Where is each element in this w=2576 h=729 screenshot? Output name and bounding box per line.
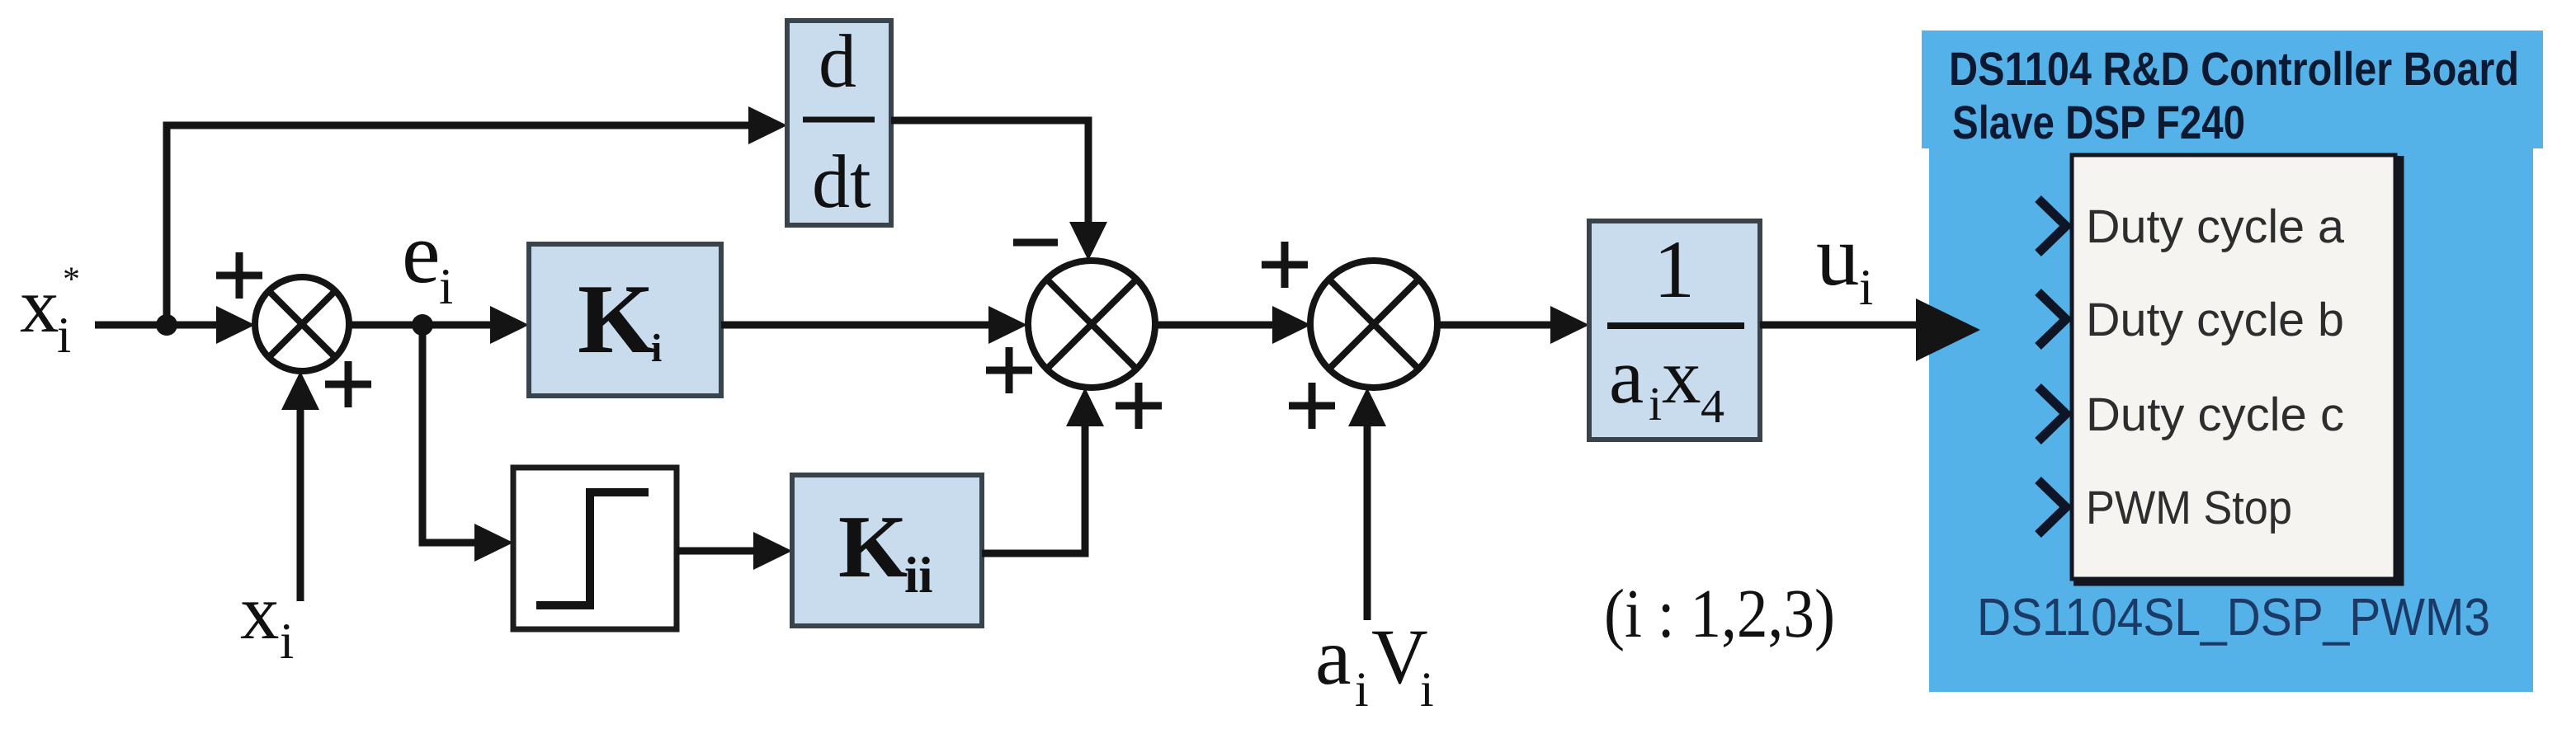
label e_i bbox=[402, 205, 453, 315]
DS1104 controller board block bbox=[1922, 31, 2543, 692]
wire x_i input from bottom into S1 bbox=[281, 371, 319, 601]
svg-text:a: a bbox=[1609, 332, 1644, 420]
svg-text:Slave DSP F240: Slave DSP F240 bbox=[1952, 96, 2245, 149]
svg-text:Duty cycle a: Duty cycle a bbox=[2086, 200, 2344, 253]
wire e_i branch down to relay block bbox=[422, 325, 513, 562]
svg-text:PWM Stop: PWM Stop bbox=[2086, 482, 2292, 534]
block Kii bbox=[792, 475, 982, 626]
wire feedback from node up to d/dt block bbox=[167, 125, 748, 325]
svg-text:i: i bbox=[1355, 662, 1369, 717]
svg-text:4: 4 bbox=[1701, 379, 1724, 433]
wire S3 output to gain block bbox=[1437, 306, 1589, 344]
svg-text:a: a bbox=[1315, 613, 1352, 702]
svg-text:i: i bbox=[439, 259, 453, 315]
minus sign top-left of S2 bbox=[1013, 239, 1058, 247]
arrowhead into d/dt bbox=[748, 106, 787, 144]
wire gain block output into DSP board bbox=[1760, 299, 1980, 361]
label a_i V_i bbox=[1315, 613, 1434, 717]
port chevron 2 bbox=[2038, 292, 2066, 346]
svg-text:Duty cycle c: Duty cycle c bbox=[2086, 388, 2344, 441]
svg-text:i: i bbox=[1649, 377, 1662, 430]
svg-text:u: u bbox=[1816, 207, 1860, 303]
port chevron 4 bbox=[2038, 480, 2066, 534]
svg-text:i: i bbox=[1859, 260, 1873, 316]
wire Ki output to S2 bbox=[721, 306, 1027, 344]
svg-text:(i : 1,2,3): (i : 1,2,3) bbox=[1604, 576, 1835, 652]
svg-text:x: x bbox=[20, 261, 59, 349]
svg-text:e: e bbox=[402, 205, 441, 301]
wire Kii output up into S2 bottom bbox=[982, 388, 1104, 553]
svg-text:DS1104SL_DSP_PWM3: DS1104SL_DSP_PWM3 bbox=[1977, 587, 2490, 647]
port chevron 3 bbox=[2038, 387, 2066, 441]
svg-text:i: i bbox=[280, 614, 294, 670]
port chevron 1 bbox=[2038, 199, 2066, 253]
svg-text:i: i bbox=[1420, 662, 1434, 717]
svg-text:x: x bbox=[240, 568, 280, 656]
label x_i* input bbox=[20, 261, 80, 364]
node e_i junction dot bbox=[412, 314, 433, 336]
wire d/dt output down into S2 top bbox=[891, 120, 1107, 261]
block d/dt bbox=[787, 19, 891, 225]
summing junction S2 bbox=[1028, 261, 1155, 388]
label x_i bottom input bbox=[240, 568, 294, 670]
wire S1 output to Ki block bbox=[349, 306, 529, 344]
svg-text:DS1104 R&D Controller Board: DS1104 R&D Controller Board bbox=[1949, 43, 2519, 96]
plus sign bottom-left of S3 bbox=[1289, 383, 1335, 429]
block Ki bbox=[529, 244, 721, 396]
wire relay to Kii block bbox=[677, 532, 792, 570]
wire input x_i* to summing junction S1 bbox=[95, 306, 255, 344]
svg-text:Duty cycle b: Duty cycle b bbox=[2086, 294, 2344, 346]
PWM subsystem white box bbox=[2072, 155, 2395, 579]
block 1/(a_i x_4) bbox=[1589, 221, 1760, 440]
plus sign top-left of S3 bbox=[1262, 242, 1308, 288]
svg-text:d: d bbox=[819, 19, 856, 103]
svg-text:i: i bbox=[57, 308, 71, 364]
plus sign bottom-right of S1 bbox=[325, 361, 371, 407]
svg-text:dt: dt bbox=[812, 139, 871, 223]
svg-text:K: K bbox=[838, 498, 908, 596]
wire a_iV_i input up into S3 bottom bbox=[1348, 388, 1386, 620]
summing junction S1 bbox=[255, 277, 349, 371]
svg-text:i: i bbox=[651, 327, 662, 370]
svg-text:*: * bbox=[63, 261, 80, 299]
plus sign left-bottom of S2 bbox=[986, 347, 1032, 393]
svg-text:1: 1 bbox=[1654, 223, 1695, 315]
svg-text:K: K bbox=[578, 264, 654, 374]
svg-text:ii: ii bbox=[904, 548, 932, 604]
plus sign bottom-right of S2 bbox=[1116, 383, 1162, 429]
svg-text:x: x bbox=[1662, 332, 1701, 420]
label u_i bbox=[1816, 207, 1873, 316]
wire S2 output to S3 bbox=[1155, 306, 1311, 344]
node junction dot on x_i* line bbox=[156, 314, 177, 336]
plus sign top-left of S1 bbox=[216, 252, 262, 299]
summing junction S3 bbox=[1310, 261, 1437, 388]
relay block (step nonlinearity) bbox=[513, 468, 677, 629]
